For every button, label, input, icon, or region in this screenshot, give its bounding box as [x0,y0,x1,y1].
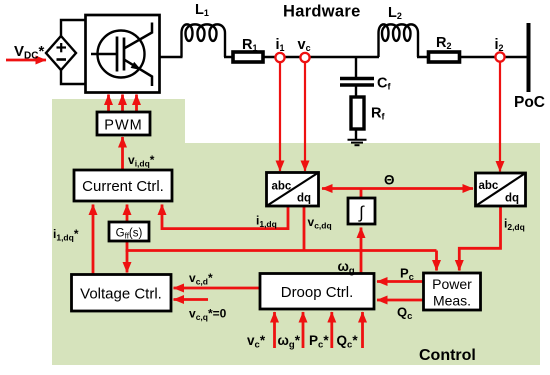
wire Pc* reference arrow [330,312,333,348]
label Rf [371,106,385,122]
label i1,dq* [53,227,79,243]
resistor R1 [233,52,263,62]
wire vc measurement drop [304,62,306,171]
wire Gff to Current Ctrl [126,205,129,223]
wire vc,dq into Voltage Ctrl [126,251,129,273]
svg-text:Droop Ctrl.: Droop Ctrl. [281,284,354,301]
svg-text:vc,q*=0: vc,q*=0 [189,307,227,323]
svg-text:vc: vc [298,37,311,53]
wire theta double arrow [322,187,473,190]
label vc [298,37,311,53]
svg-text:L2: L2 [388,5,402,21]
svg-text:VDC*: VDC* [14,43,44,62]
block Power Meas U7 [424,273,481,310]
resistor Rf [351,97,364,129]
label i2,dq [504,217,525,233]
wire vc,d* droop to Voltage Ctrl [174,287,261,290]
wire omega_g droop to integrator [360,228,363,274]
node i2 [495,52,504,61]
label Qc* [337,333,359,351]
svg-text:Rf: Rf [371,106,385,122]
label Qc [397,305,412,323]
svg-text:i1: i1 [276,37,285,53]
label L2 [388,5,402,21]
wire Cf branch [355,57,357,97]
svg-text:i2: i2 [495,37,504,53]
wire vc* reference arrow [273,312,276,348]
wire i1,dq* Voltage Ctrl to Current Ctrl [92,205,95,275]
inductor L1 [182,24,226,57]
wire i1,dq feedback [162,205,288,229]
label Pc [400,266,414,284]
label vc,dq [308,215,332,231]
resistor R2 [429,52,460,62]
svg-text:PWM: PWM [104,118,142,134]
wire i1 measurement drop [279,62,281,171]
svg-text:dq: dq [297,192,311,204]
ground [348,140,367,145]
svg-text:Gff(s): Gff(s) [116,228,143,241]
node vc [300,53,309,62]
block abc/dq left U3 [267,173,319,207]
label Control [419,347,476,364]
svg-text:Control: Control [419,347,476,364]
label i2 [495,37,504,53]
wire Pc Power Meas to Droop [377,280,424,283]
block Voltage Ctrl U5 [72,275,172,312]
label vi,dq* [128,153,155,169]
node i1 [275,53,284,62]
converter U1 [86,15,160,93]
wire vc,q*=0 into Voltage Ctrl [174,298,209,301]
wire theta to integrator [360,189,363,199]
label Hardware [283,3,361,21]
label PoC [514,94,545,111]
wire VDC reference arrow [6,59,46,62]
inductor L2 [379,24,419,57]
svg-text:R2: R2 [436,35,452,51]
svg-text:Θ: Θ [384,173,395,188]
svg-text:abc: abc [272,180,292,192]
label Cf [377,76,391,92]
PoC bar [527,23,531,92]
label omega_g* [278,333,301,351]
wire i2,dq to Power Meas [459,206,500,271]
svg-text:abc: abc [479,180,499,192]
block Droop Ctrl U6 [260,274,374,310]
source VDC diamond [46,36,76,70]
label theta [384,173,395,188]
svg-text:Current Ctrl.: Current Ctrl. [82,178,164,195]
label i1 [276,37,285,53]
svg-text:dq: dq [505,192,519,204]
block Current Ctrl U2 [74,170,172,201]
wire main AC bus [160,56,529,58]
wire Rf to ground [355,129,357,139]
wire i2 measurement drop [499,62,501,172]
label R1 [242,37,258,53]
svg-text:Meas.: Meas. [433,293,471,309]
svg-text:PoC: PoC [514,94,545,111]
svg-text:Power: Power [432,276,472,292]
label R2 [436,35,452,51]
svg-text:Voltage Ctrl.: Voltage Ctrl. [80,286,162,303]
wire Qc Power Meas to Droop [377,299,424,302]
wire Qc* reference arrow [361,312,364,348]
capacitor Cf [340,79,374,86]
block integrator [348,198,375,224]
wire vi,dq* Current Ctrl to PWM [121,137,124,170]
label Pc* [309,333,329,351]
label vc,d* [189,271,213,287]
block abc/dq right U4 [476,173,526,206]
label i1,dq [256,214,277,230]
svg-text:Hardware: Hardware [283,3,361,21]
block PWM [97,112,150,135]
wire vc,dq drop from abc/dq [303,206,306,251]
wire vc,dq into Power Meas [435,251,438,271]
label L1 [195,2,209,18]
wire source to converter [61,20,86,84]
wire omega_g* reference arrow [302,312,305,348]
svg-text:Cf: Cf [377,76,391,92]
svg-text:L1: L1 [195,2,209,18]
control region background [52,99,540,365]
label vc* [247,333,266,351]
label omega_g [338,259,355,277]
label VDC* [14,43,44,62]
svg-text:R1: R1 [242,37,258,53]
label vc,q*=0 [189,307,227,323]
block Gff(s) [109,222,149,241]
wire PWM to converter gate arrows [109,95,137,113]
wire vc,dq bus [126,241,437,251]
